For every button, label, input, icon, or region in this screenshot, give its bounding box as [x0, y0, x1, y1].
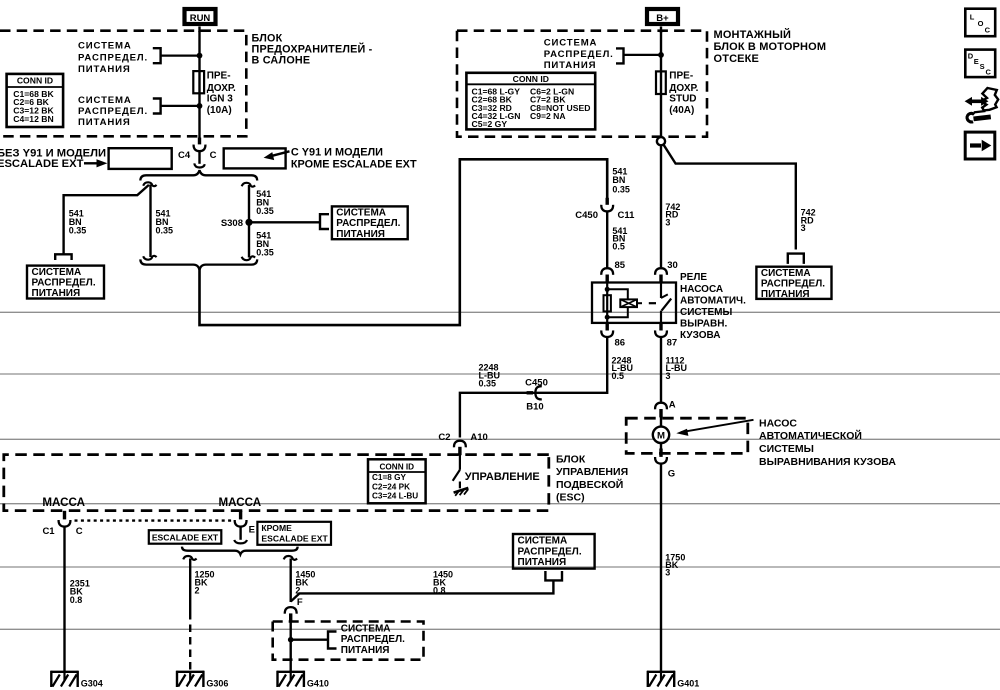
- ground G306: [176, 671, 228, 689]
- svg-text:УПРАВЛЕНИЯ: УПРАВЛЕНИЯ: [556, 466, 628, 478]
- pin 86 connector: [601, 323, 625, 349]
- relay box (auto level control pump relay): [592, 283, 676, 323]
- svg-text:F: F: [297, 597, 303, 608]
- svg-text:C: C: [210, 150, 217, 161]
- svg-text:ПИТАНИЯ: ПИТАНИЯ: [78, 64, 131, 75]
- power distribution system box (right of S308): [332, 206, 408, 239]
- bracket connector lower: [153, 99, 161, 114]
- svg-text:3: 3: [801, 223, 806, 233]
- svg-text:СИСТЕМА: СИСТЕМА: [341, 624, 391, 635]
- svg-text:RUN: RUN: [190, 13, 211, 24]
- ruled gray line 3: [0, 438, 1000, 440]
- node: junction dot upper branch: [197, 53, 203, 59]
- node: coil top junction: [605, 287, 610, 292]
- connector G: [655, 449, 675, 480]
- svg-text:ВЫРАВН.: ВЫРАВН.: [680, 319, 727, 330]
- svg-text:РЕЛЕ: РЕЛЕ: [680, 272, 707, 283]
- option tick top of 1450 wire: [284, 556, 297, 560]
- node: junction dot in bottom dashed box: [288, 637, 294, 643]
- svg-text:C11: C11: [618, 210, 636, 221]
- wire pin 86 down and left to ESC: [460, 337, 607, 437]
- svg-text:CONN ID: CONN ID: [380, 462, 415, 471]
- ground G410: [277, 671, 329, 689]
- svg-text:B10: B10: [526, 402, 543, 413]
- label option with Y91: [291, 147, 417, 171]
- svg-text:МАССА: МАССА: [219, 496, 262, 509]
- svg-text:CONN ID: CONN ID: [17, 75, 53, 85]
- svg-text:ПРЕДОХРАНИТЕЛЕЙ -: ПРЕДОХРАНИТЕЛЕЙ -: [252, 43, 373, 56]
- wire C4 connector to option brace: [198, 151, 200, 164]
- power distribution dashed box (bottom middle): [273, 622, 424, 660]
- pin 87 connector: [655, 323, 677, 349]
- ESCALADE EXT option box: [149, 530, 222, 544]
- svg-text:0.5: 0.5: [612, 371, 625, 381]
- svg-text:ПИТАНИЯ: ПИТАНИЯ: [78, 117, 131, 128]
- svg-text:ОТСЕКЕ: ОТСЕКЕ: [714, 53, 760, 65]
- label power distribution system (bottom middle): [341, 624, 405, 656]
- svg-text:C4=12 BN: C4=12 BN: [13, 114, 53, 124]
- svg-text:ESCALADE EXT: ESCALADE EXT: [0, 158, 84, 170]
- svg-text:СИСТЕМА: СИСТЕМА: [78, 95, 132, 106]
- svg-text:МОНТАЖНЫЙ: МОНТАЖНЫЙ: [714, 28, 792, 41]
- svg-text:РАСПРЕДЕЛ.: РАСПРЕДЕЛ.: [518, 546, 582, 557]
- svg-text:0.35: 0.35: [156, 226, 174, 236]
- svg-text:C: C: [986, 68, 992, 77]
- icon schematic navigation (double arrow with wrench): [965, 88, 999, 122]
- wire label 541 BN 0.35 (right lower): [256, 230, 274, 257]
- option tick top of right branch wire: [242, 183, 255, 187]
- wire C1 to G304: [63, 527, 65, 672]
- wire run from lower brace down right and up to relay column: [200, 159, 608, 325]
- bracket connector upper (СИСТЕМА РАСПРЕДЕЛ. ПИТАНИЯ): [153, 48, 161, 63]
- svg-text:L: L: [970, 12, 975, 21]
- svg-text:ПИТАНИЯ: ПИТАНИЯ: [761, 289, 810, 300]
- svg-text:G306: G306: [206, 679, 228, 689]
- svg-text:СИСТЕМЫ: СИСТЕМЫ: [759, 443, 814, 455]
- svg-text:РАСПРЕДЕЛ.: РАСПРЕДЕЛ.: [544, 49, 614, 60]
- svg-text:ПИТАНИЯ: ПИТАНИЯ: [544, 60, 597, 71]
- ESC suspension control module dashed outline: [4, 455, 549, 511]
- svg-text:S: S: [980, 62, 985, 71]
- B+ battery feed box: [647, 9, 678, 24]
- svg-text:3: 3: [666, 371, 671, 381]
- wire to G306 dashed part: [189, 612, 191, 672]
- underhood electrical center dashed outline (МОНТАЖНЫЙ БЛОК В МОТОРНОМ ОТСЕКЕ): [457, 28, 826, 137]
- svg-text:STUD: STUD: [669, 94, 696, 105]
- svg-text:СИСТЕМЫ: СИСТЕМЫ: [680, 307, 732, 318]
- svg-text:РАСПРЕДЕЛ.: РАСПРЕДЕЛ.: [78, 106, 148, 117]
- svg-text:C4: C4: [178, 150, 191, 161]
- node: stud terminal ring below underhood block: [657, 137, 665, 145]
- svg-text:РАСПРЕДЕЛ.: РАСПРЕДЕЛ.: [78, 52, 148, 63]
- relay switch fixed contact tick: [661, 294, 668, 298]
- ruled gray line 5: [0, 566, 1000, 568]
- svg-text:СИСТЕМА: СИСТЕМА: [336, 208, 386, 219]
- wire label 2351 BK 0.8: [70, 579, 90, 605]
- svg-text:E: E: [974, 57, 979, 66]
- connector E ground lead: [235, 511, 255, 536]
- svg-text:G: G: [668, 468, 675, 479]
- svg-text:O: O: [978, 19, 984, 28]
- relay coil loop wire: [607, 289, 628, 299]
- relay dashed mechanical link: [649, 302, 656, 304]
- RUN ignition feed box: [185, 9, 216, 24]
- wire 1450 down to F: [290, 559, 292, 603]
- relay coil crossed box: [620, 299, 637, 307]
- wire label 541 BN 0.35 (relay column top): [612, 166, 630, 194]
- wire stud down to relay pin 30: [660, 145, 662, 268]
- wire junction to bracket (bottom middle): [291, 639, 328, 641]
- connector C450 / B10 inline horizontal: [525, 377, 548, 412]
- CONN ID table (underhood block): [466, 73, 595, 130]
- svg-text:3: 3: [665, 568, 670, 578]
- bracket connector (B+ block power distribution): [616, 48, 624, 63]
- connector C4 / C below fuse block: [178, 138, 217, 162]
- relay coil branch wire: [606, 283, 608, 323]
- wire label 1450 BK 0.8: [433, 569, 453, 595]
- half-box connector under power distribution box (bottom right): [545, 571, 562, 580]
- option tick top of G306 wire: [183, 556, 196, 560]
- wire label 541 BN 0.35 (far left): [69, 209, 87, 236]
- svg-text:S308: S308: [221, 218, 243, 229]
- ruled gray line 1: [0, 311, 1000, 313]
- right branch wire vertical through S308: [248, 185, 250, 258]
- svg-text:3: 3: [665, 218, 670, 228]
- relay coil loop wire lower: [607, 307, 628, 317]
- svg-text:C1: C1: [42, 526, 55, 537]
- svg-text:ПИТАНИЯ: ПИТАНИЯ: [341, 645, 390, 656]
- ruled gray line 6: [0, 628, 1000, 630]
- arrow to left option box: [84, 159, 107, 167]
- ESC internal ground symbol: [454, 482, 469, 496]
- option tick bottom of E wire: [234, 540, 247, 543]
- svg-text:ESCALADE EXT: ESCALADE EXT: [152, 533, 219, 543]
- svg-text:РАСПРЕДЕЛ.: РАСПРЕДЕЛ.: [32, 277, 96, 288]
- wire C11 to relay pin 85: [606, 211, 608, 268]
- svg-text:КРОМЕ ESCALADE EXT: КРОМЕ ESCALADE EXT: [291, 159, 417, 171]
- icon DESC box: [965, 50, 995, 78]
- svg-text:A10: A10: [470, 432, 487, 443]
- option brace (ground leads): [182, 547, 298, 555]
- icon LOC box: [965, 9, 995, 37]
- ruled gray line 4: [0, 503, 1000, 505]
- fuse STUD (40A): [656, 71, 699, 116]
- pin 30 connector: [655, 260, 678, 283]
- svg-text:СИСТЕМА: СИСТЕМА: [78, 41, 132, 52]
- svg-text:0.35: 0.35: [612, 184, 630, 194]
- svg-text:B+: B+: [656, 13, 669, 24]
- power distribution system box (bottom right): [513, 534, 595, 569]
- svg-text:(40А): (40А): [669, 105, 694, 116]
- fuse IGN 3 (10A): [193, 71, 236, 116]
- svg-text:0.35: 0.35: [256, 248, 274, 258]
- bracket connector (bottom middle): [328, 632, 337, 649]
- svg-text:С Y91 И МОДЕЛИ: С Y91 И МОДЕЛИ: [291, 147, 383, 159]
- wire label 1450 BK 2: [295, 569, 315, 595]
- half-box connector into power distribution (742 branch): [788, 254, 804, 264]
- svg-text:СИСТЕМА: СИСТЕМА: [32, 267, 82, 278]
- wire diagonal branch from stud to right feed: [663, 144, 796, 249]
- svg-text:C2: C2: [438, 432, 450, 443]
- arrow to right option box: [264, 151, 290, 160]
- connector F: [285, 597, 303, 621]
- wire label 541 BN 0.5: [612, 226, 627, 252]
- svg-text:(10А): (10А): [207, 105, 232, 116]
- pump dashed outline: [626, 418, 748, 453]
- wire branch to power distribution (lower): [161, 105, 200, 107]
- option tick top of left branch wire: [143, 182, 156, 186]
- wire label 2248 L-BU 0.35: [479, 363, 501, 389]
- interior fuse block dashed outline (БЛОК ПРЕДОХРАНИТЕЛЕЙ - В САЛОНЕ): [0, 31, 373, 137]
- svg-text:C1=8 GY: C1=8 GY: [372, 473, 406, 482]
- svg-text:МАССА: МАССА: [42, 496, 85, 509]
- wire B+ box to underhood block: [660, 27, 662, 34]
- svg-text:НАСОСА: НАСОСА: [680, 284, 723, 295]
- left branch wire vertical: [149, 185, 151, 258]
- svg-text:M: M: [657, 431, 665, 442]
- svg-text:0.5: 0.5: [612, 242, 625, 252]
- label option without Y91: [0, 148, 106, 171]
- option tick bottom of left branch wire: [143, 256, 156, 260]
- motor M (auto level control pump): [653, 427, 669, 443]
- wire S308 to power distribution bracket: [249, 221, 320, 223]
- svg-text:РАСПРЕДЕЛ.: РАСПРЕДЕЛ.: [341, 634, 405, 645]
- svg-text:0.35: 0.35: [256, 206, 274, 216]
- svg-text:0.8: 0.8: [433, 586, 446, 596]
- svg-text:НАСОС: НАСОС: [759, 417, 797, 429]
- CONN ID table (ESC): [368, 459, 426, 503]
- svg-text:ПРЕ-: ПРЕ-: [207, 71, 231, 82]
- svg-text:87: 87: [667, 337, 678, 348]
- svg-text:C: C: [985, 26, 991, 35]
- wire G to G401: [660, 464, 662, 672]
- option box (with Y91): [224, 148, 286, 168]
- relay switch blade: [662, 299, 672, 311]
- ESC internal switch (УПРАВЛЕНИЕ): [453, 455, 460, 481]
- svg-text:C5=2 GY: C5=2 GY: [472, 119, 508, 129]
- connector A: [655, 399, 676, 417]
- option brace lower: [140, 259, 257, 269]
- svg-text:0.35: 0.35: [69, 226, 87, 236]
- svg-text:G304: G304: [81, 679, 103, 689]
- option tick below C4 connector: [194, 163, 205, 167]
- svg-text:C: C: [76, 526, 83, 537]
- pin 85 connector: [601, 260, 625, 283]
- svg-text:АВТОМАТИЧ.: АВТОМАТИЧ.: [680, 295, 746, 306]
- bracket connector at S308 box: [320, 214, 329, 229]
- svg-text:G410: G410: [307, 679, 329, 689]
- main vertical wire RUN column: [198, 31, 200, 138]
- wire label 742 RD 3 (right run): [801, 207, 816, 233]
- node: coil bottom junction: [605, 315, 610, 320]
- pump label with arrow: [676, 417, 896, 467]
- wire E to option brace: [239, 527, 241, 540]
- ground G304: [51, 671, 103, 689]
- svg-text:АВТОМАТИЧЕСКОЙ: АВТОМАТИЧЕСКОЙ: [759, 429, 862, 442]
- option brace upper: [140, 170, 257, 180]
- half-box connector into power distribution box (left bottom): [55, 254, 71, 260]
- svg-text:КУЗОВА: КУЗОВА: [680, 330, 720, 341]
- svg-text:ПРЕ-: ПРЕ-: [669, 71, 693, 82]
- svg-text:0.8: 0.8: [70, 595, 83, 605]
- wire to G306 solid part: [189, 559, 191, 613]
- wire label 1112 L-BU 3: [666, 355, 688, 381]
- wire label 541 BN 0.35 (right upper): [256, 189, 274, 216]
- relay switch input wire pin30: [660, 283, 662, 299]
- svg-text:СИСТЕМА: СИСТЕМА: [518, 536, 568, 547]
- svg-text:БЛОК В МОТОРНОМ: БЛОК В МОТОРНОМ: [714, 41, 827, 53]
- connector C450 / C11 inline: [575, 198, 635, 221]
- svg-text:РАСПРЕДЕЛ.: РАСПРЕДЕЛ.: [761, 279, 825, 290]
- svg-text:2: 2: [195, 586, 200, 596]
- label power distribution system (B+ block): [544, 37, 614, 71]
- connector C2 / A10 at ESC: [438, 432, 487, 455]
- wire branch to power distribution (upper): [161, 54, 200, 56]
- wire label 1750 BK 3: [665, 552, 685, 577]
- svg-text:IGN 3: IGN 3: [207, 94, 234, 105]
- wire A to motor: [660, 417, 662, 427]
- relay switch output wire pin 87: [660, 311, 662, 323]
- splice S308: [221, 218, 253, 229]
- svg-text:ПИТАНИЯ: ПИТАНИЯ: [32, 288, 81, 299]
- svg-text:0.35: 0.35: [479, 378, 497, 388]
- svg-text:КРОМЕ: КРОМЕ: [261, 523, 292, 533]
- power distribution system box (742 branch): [756, 267, 831, 301]
- svg-text:A: A: [669, 399, 676, 410]
- wire RUN box to fuse block: [198, 27, 200, 33]
- label power distribution system (upper): [78, 41, 148, 75]
- relay resistor element: [604, 295, 611, 311]
- svg-text:30: 30: [667, 260, 678, 271]
- wire motor to G connector: [660, 443, 662, 449]
- connector C1 / C ground lead: [42, 511, 82, 537]
- wire branch diagonal from 1450 to power distribution: [291, 580, 554, 601]
- power distribution system box (left bottom): [27, 266, 104, 299]
- svg-text:C9=2 NA: C9=2 NA: [530, 111, 566, 121]
- svg-text:СИСТЕМА: СИСТЕМА: [761, 268, 811, 279]
- dotted link C to E: [75, 519, 234, 521]
- svg-text:C3=24 L-BU: C3=24 L-BU: [372, 491, 418, 500]
- svg-text:86: 86: [615, 337, 626, 348]
- svg-text:СИСТЕМА: СИСТЕМА: [544, 37, 598, 48]
- ruled gray line 2: [0, 373, 1000, 375]
- option box (without Y91): [109, 148, 172, 169]
- wire label 2248 L-BU 0.5: [612, 355, 634, 381]
- ESC module label: [556, 453, 628, 503]
- wire pin 87 down to pump: [660, 337, 662, 403]
- svg-text:ПИТАНИЯ: ПИТАНИЯ: [336, 229, 385, 240]
- svg-text:C2=24 PK: C2=24 PK: [372, 482, 410, 491]
- CONN ID table C1 (interior fuse block): [7, 74, 64, 127]
- svg-text:ПИТАНИЯ: ПИТАНИЯ: [518, 557, 567, 568]
- wire branch to power distribution (B+ block): [623, 54, 661, 56]
- option tick bottom of right branch wire: [242, 256, 255, 260]
- ground G401: [647, 671, 699, 689]
- wire F to G410: [290, 620, 292, 672]
- svg-text:ESCALADE EXT: ESCALADE EXT: [261, 534, 328, 544]
- wire label 541 BN 0.35 (middle): [156, 209, 174, 236]
- svg-text:85: 85: [615, 260, 626, 271]
- relay label: [680, 272, 746, 341]
- node: junction dot lower branch: [197, 103, 203, 109]
- svg-text:(ESC): (ESC): [556, 492, 585, 504]
- svg-text:В САЛОНЕ: В САЛОНЕ: [252, 55, 311, 67]
- КРОМЕ ESCALADE EXT option box: [257, 522, 331, 545]
- svg-text:CONN ID: CONN ID: [513, 74, 549, 84]
- svg-text:РАСПРЕДЕЛ.: РАСПРЕДЕЛ.: [336, 218, 400, 229]
- wire label 742 RD 3 (left run): [665, 202, 680, 228]
- svg-text:E: E: [249, 524, 255, 535]
- wire diagonal merge to far-left branch: [64, 185, 149, 254]
- svg-text:G401: G401: [677, 679, 699, 689]
- svg-text:C450: C450: [575, 210, 598, 221]
- svg-text:БЛОК: БЛОК: [556, 453, 586, 465]
- label power distribution system (lower): [78, 95, 148, 128]
- svg-text:УПРАВЛЕНИЕ: УПРАВЛЕНИЕ: [465, 471, 540, 483]
- main vertical wire B+ column: [660, 31, 662, 137]
- svg-text:ПОДВЕСКОЙ: ПОДВЕСКОЙ: [556, 478, 623, 491]
- wire label 1250 BK 2: [195, 569, 215, 595]
- relay coil to armature link: [637, 302, 642, 304]
- node: junction dot B+ branch: [658, 52, 664, 58]
- icon forward arrow box: [965, 132, 995, 159]
- svg-text:ВЫРАВНИВАНИЯ КУЗОВА: ВЫРАВНИВАНИЯ КУЗОВА: [759, 456, 896, 468]
